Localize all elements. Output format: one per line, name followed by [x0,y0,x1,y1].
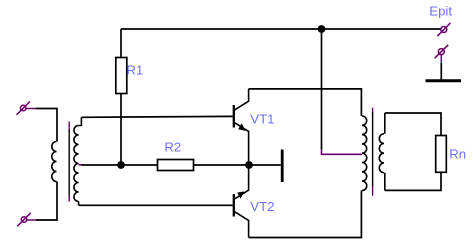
terminal Epit [437,23,450,36]
wire T1 bottom to VT2 base [79,204,233,206]
wire T1 top to VT1 base [81,115,232,118]
svg-text:VT2: VT2 [250,199,274,214]
wire center tap to R2 [81,164,158,166]
wire T2 secondary to Rn top [385,113,441,136]
wire ground lead [440,63,442,80]
wire Rn bottom to T2 secondary [385,172,441,190]
resistor R1 [116,58,127,94]
wire VT1 collector to T2 [249,89,362,116]
svg-text:VT1: VT1 [250,111,274,126]
transistor VT1 [234,89,249,165]
svg-text:R1: R1 [126,62,143,77]
wire R1 bottom lead [120,94,122,166]
node emitter junction [245,161,253,169]
transformer T2 primary winding (center-tapped) [362,116,367,191]
node T1 center tap (purple nub) [79,164,82,166]
wire T2 center tap (purple) [322,149,363,154]
ground bar [426,79,462,82]
svg-text:Rn: Rn [449,146,466,161]
svg-text:Epit: Epit [429,3,452,18]
svg-text:R2: R2 [164,140,181,155]
wire top rail [121,28,441,30]
transformer T2 secondary winding [379,113,385,190]
resistor R2 [158,160,194,171]
transistor VT2 [234,165,249,238]
wire input bottom [36,182,57,221]
transformer T1 primary winding [52,142,57,182]
transformer T2 core [372,108,374,196]
wire R1 top lead [120,29,122,58]
wire input top [36,109,57,142]
terminal input top-left [17,101,37,114]
transformer T1 core [68,122,70,202]
ground chassis bar (vertical) [281,150,284,183]
wire VT2 collector to T2 [249,191,362,238]
node top rail junction [318,25,326,33]
terminal ground [435,45,449,63]
node junction left (center-tap / R1 / R2) [117,161,125,169]
wire rail down to T2 tap [321,29,323,150]
wire emitter node to chassis [249,164,281,166]
resistor Rn [436,136,447,173]
terminal input bottom-left [17,213,36,226]
wire R2 to emitter node [194,164,250,166]
transformer T1 secondary winding (center-tapped) [74,117,82,205]
